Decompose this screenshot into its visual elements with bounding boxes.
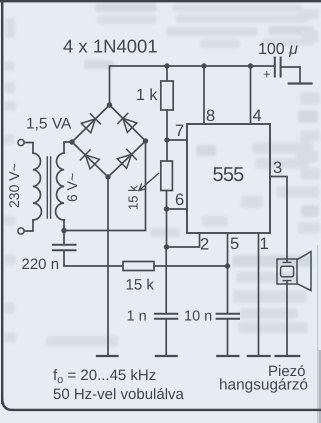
ground bar under 1n xyxy=(156,355,177,357)
ground bar under piezo xyxy=(276,355,300,357)
node dot pin5 / 15k xyxy=(225,263,230,268)
node dot top rail / 1k xyxy=(164,63,169,68)
wire 15k horizontal to pin5 xyxy=(154,265,228,267)
node dot pin2 rail xyxy=(164,244,169,249)
node dot pin7 rail xyxy=(164,137,169,142)
node dot top rail / pin8 xyxy=(201,63,206,68)
node dot bridge left xyxy=(69,139,74,144)
wire bridge bottom to ground xyxy=(107,177,109,356)
resistor R1 1k xyxy=(161,81,173,110)
svg-text:15 k: 15 k xyxy=(126,277,155,294)
wire primary bottom lead xyxy=(24,220,33,231)
potentiometer P1 15k body xyxy=(161,161,173,191)
svg-text:230 V~: 230 V~ xyxy=(6,163,22,208)
transformer primary terminal bottom xyxy=(18,228,24,234)
wire pin1 down xyxy=(258,233,260,356)
wire primary top lead xyxy=(24,143,33,154)
transformer primary winding xyxy=(33,153,41,220)
piezo speaker LS1 box xyxy=(277,259,297,284)
wire 220n to 15k xyxy=(64,251,123,267)
wire pin2 L-shape xyxy=(167,233,200,247)
wire rail pin6 to pin2 node xyxy=(166,209,168,247)
ground bar under bridge xyxy=(97,355,118,357)
svg-text:50 Hz-vel vobulálva: 50 Hz-vel vobulálva xyxy=(53,386,185,403)
svg-text:1 k: 1 k xyxy=(136,87,158,104)
node dot bridge bottom xyxy=(105,174,110,179)
bridge rectifier diamond wires xyxy=(72,105,146,177)
wire top rail from bridge top to 100u xyxy=(110,66,275,105)
wire secondary bottom node to 220n xyxy=(63,231,65,245)
diode D3 bottom-left xyxy=(80,150,99,169)
ground bar under pin1 xyxy=(248,355,270,357)
piezo bottom contact xyxy=(283,280,291,282)
wire piezo to ground xyxy=(286,281,288,356)
svg-text:1 n: 1 n xyxy=(127,309,147,325)
IC U1 555 box xyxy=(187,124,270,233)
svg-text:hangsugárzó: hangsugárzó xyxy=(219,377,308,394)
wire 100u to ground xyxy=(281,67,300,83)
node dot top rail / pin4 xyxy=(248,63,253,68)
svg-text:10 n: 10 n xyxy=(184,309,212,325)
svg-text:2: 2 xyxy=(200,236,209,254)
svg-text:fo = 20...45 kHz: fo = 20...45 kHz xyxy=(53,367,156,386)
svg-text:555: 555 xyxy=(213,164,245,186)
node dot pin6 rail xyxy=(164,206,169,211)
node dot bridge top xyxy=(107,102,112,107)
piezo inner element xyxy=(281,266,294,277)
resistor R2 15k body xyxy=(123,262,154,271)
svg-text:15 k: 15 k xyxy=(126,185,141,210)
diode D1 top-left xyxy=(81,114,100,133)
svg-text:5: 5 xyxy=(230,235,239,253)
svg-text:8: 8 xyxy=(206,107,215,125)
svg-text:100 μ: 100 μ xyxy=(258,41,298,58)
transformer core xyxy=(47,157,50,218)
svg-text:4: 4 xyxy=(253,107,262,125)
transformer T1 primary terminal top xyxy=(18,139,24,145)
node dot secondary bottom / 220n xyxy=(61,228,66,233)
svg-text:7: 7 xyxy=(175,122,184,140)
svg-text:6 V~: 6 V~ xyxy=(64,173,80,202)
wire secondary top lead xyxy=(64,142,72,153)
capacitor C2 100u plates xyxy=(275,58,281,77)
wire pin5 down xyxy=(227,233,229,313)
wire 1n to ground xyxy=(165,319,167,356)
svg-text:1,5 VA: 1,5 VA xyxy=(26,116,72,133)
wire pin3 to piezo xyxy=(270,177,287,263)
wire pin7 xyxy=(167,139,187,141)
diode D4 bottom-right xyxy=(117,149,136,168)
svg-text:1: 1 xyxy=(260,235,269,253)
capacitor C4 10n plates xyxy=(217,314,239,319)
wire pin6 xyxy=(167,208,188,210)
wire 1k leads xyxy=(166,66,168,140)
wire 10n to ground xyxy=(227,319,229,356)
capacitor C3 1n plates xyxy=(155,314,177,319)
ground bar under 10n xyxy=(217,355,238,357)
node dot bridge right xyxy=(143,138,148,143)
diode D2 top-right xyxy=(118,113,137,132)
piezo horn xyxy=(297,252,311,291)
svg-text:220 n: 220 n xyxy=(22,256,60,273)
wire secondary bottom rail to bridge right vertex xyxy=(64,141,146,231)
ground bar for 100u xyxy=(289,82,312,84)
wire rail down to 1n cap xyxy=(165,247,167,313)
wire secondary bottom lead xyxy=(63,220,65,231)
piezo top contact xyxy=(283,261,291,263)
wire rail 1k to pot xyxy=(166,140,168,161)
wire pin8 stub xyxy=(203,66,205,124)
svg-text:+: + xyxy=(263,67,271,82)
transformer secondary winding xyxy=(56,153,64,220)
svg-text:3: 3 xyxy=(273,159,282,177)
potentiometer arrow xyxy=(139,174,159,191)
capacitor C1 220n plates xyxy=(53,245,76,251)
svg-text:6: 6 xyxy=(175,191,184,209)
wire pot to pin6 xyxy=(166,191,168,210)
svg-text:4 x 1N4001: 4 x 1N4001 xyxy=(63,36,158,57)
wire pin4 stub xyxy=(250,66,252,124)
